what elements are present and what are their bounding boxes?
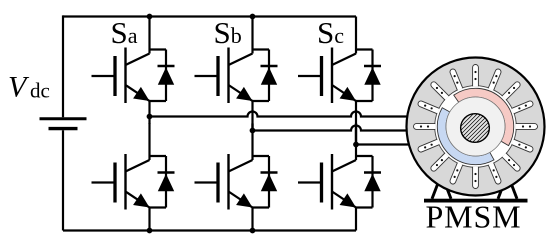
svg-text:dc: dc — [30, 79, 50, 103]
svg-text:PMSM: PMSM — [425, 199, 521, 235]
